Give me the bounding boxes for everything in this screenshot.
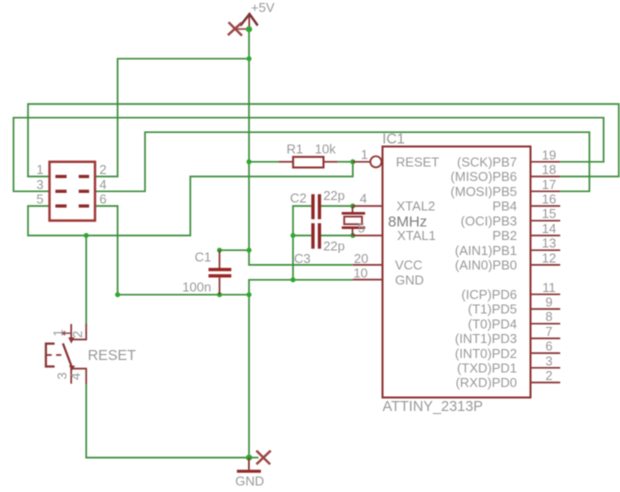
svg-text:GND: GND [395, 272, 424, 287]
node junction C1 top [217, 248, 222, 253]
svg-text:(TXD)PD1: (TXD)PD1 [457, 361, 517, 376]
svg-text:7: 7 [545, 324, 552, 339]
svg-text:6: 6 [545, 339, 552, 354]
svg-text:(MISO)PB6: (MISO)PB6 [451, 169, 517, 184]
pin RESET (1) of IC1 [353, 156, 382, 167]
pin (TXD)PD1 3 of IC1 [531, 367, 561, 369]
svg-text:R1: R1 [287, 141, 304, 156]
pin (T0)PD4 8 of IC1 [531, 323, 561, 325]
svg-text:9: 9 [545, 295, 552, 310]
svg-text:10k: 10k [315, 142, 336, 157]
pin GND (10) of IC1 [353, 279, 383, 281]
svg-text:22p: 22p [323, 239, 345, 254]
wire GND rail to C1 and main vertical [118, 294, 249, 296]
node +5V junction [246, 26, 252, 32]
svg-text:C3: C3 [294, 251, 311, 266]
svg-text:RESET: RESET [396, 155, 439, 170]
svg-text:1: 1 [36, 162, 43, 177]
svg-text:(RXD)PD0: (RXD)PD0 [456, 375, 517, 390]
node junction conn pin6 on GND rail [115, 292, 120, 297]
svg-text:IC1: IC1 [382, 131, 405, 147]
svg-text:(INT1)PD3: (INT1)PD3 [455, 331, 517, 346]
svg-text:2: 2 [545, 368, 552, 383]
svg-text:4: 4 [68, 373, 83, 380]
svg-text:XTAL1: XTAL1 [397, 228, 436, 243]
svg-text:19: 19 [542, 147, 556, 162]
connector JP1 pinhead 2x3 [50, 162, 96, 221]
svg-text:100n: 100n [182, 279, 211, 294]
svg-text:3: 3 [36, 177, 43, 192]
capacitor C2 [311, 194, 321, 219]
pin (OCI)PB3 15 of IC1 [531, 220, 561, 222]
svg-text:C2: C2 [290, 191, 307, 206]
node junction C2C3 on GND wire [291, 277, 296, 282]
wire C1 top to +5V vertical [220, 249, 250, 251]
pin (ICP)PD6 11 of IC1 [531, 293, 561, 295]
pin (RXD)PD0 2 of IC1 [531, 382, 561, 384]
svg-text:(ICP)PD6: (ICP)PD6 [461, 287, 517, 302]
node junction XTAL2 [350, 204, 355, 209]
IC IC1 ATTINY_2313P body [383, 147, 531, 398]
pin PB4 16 of IC1 [531, 205, 561, 207]
ERC cross marker at GND [249, 451, 271, 465]
svg-text:8: 8 [545, 309, 552, 324]
node junction on +5V vertical at C1 row [247, 248, 252, 253]
svg-text:RESET: RESET [88, 348, 136, 364]
svg-text:22p: 22p [323, 188, 345, 203]
wire +5V branch to conn pin2 [95, 59, 249, 177]
svg-text:6: 6 [99, 192, 106, 207]
wire GND conn pin6 drop [95, 206, 118, 295]
svg-text:ATTINY_2313P: ATTINY_2313P [383, 399, 483, 415]
svg-text:16: 16 [542, 192, 556, 207]
svg-text:(OCI)PB3: (OCI)PB3 [461, 213, 517, 228]
svg-text:12: 12 [542, 250, 556, 265]
svg-text:10: 10 [353, 266, 367, 281]
svg-text:(INT0)PD2: (INT0)PD2 [455, 346, 517, 361]
svg-text:4: 4 [360, 191, 367, 206]
node junction RESET at IC pin1 [350, 159, 355, 164]
node junction C2/C3 common [291, 233, 296, 238]
node junction R1 tap [247, 159, 252, 164]
wire RESET net from IC pin1 to conn pin5 [28, 162, 353, 236]
pin (INT1)PD3 7 of IC1 [531, 337, 561, 339]
wire C2C3 common down to GND wire [292, 236, 294, 280]
svg-text:(T0)PD4: (T0)PD4 [468, 316, 517, 331]
svg-text:PB2: PB2 [492, 228, 517, 243]
svg-text:1: 1 [361, 147, 368, 162]
svg-text:1: 1 [51, 329, 66, 336]
svg-text:PB4: PB4 [492, 199, 517, 214]
wire +5V tap to R1 left [249, 161, 279, 163]
wire GND vertical to GND symbol [248, 295, 250, 458]
capacitor C1 [209, 250, 232, 295]
svg-text:5: 5 [358, 221, 365, 236]
wire C2 left to GND corner [293, 206, 311, 236]
svg-text:XTAL2: XTAL2 [397, 199, 436, 214]
node junction at +5V / pin2 branch [247, 56, 252, 61]
wire R1 right to RESET node [338, 161, 353, 163]
svg-text:20: 20 [354, 251, 368, 266]
supply +5V symbol [240, 14, 257, 29]
pin VCC (20) of IC1 [353, 264, 383, 266]
pin (MOSI)PB5 17 of IC1 [531, 190, 561, 192]
pin (AIN0)PB0 12 of IC1 [531, 264, 561, 266]
pin (SCK)PB7 19 of IC1 [531, 161, 561, 163]
svg-text:GND: GND [235, 474, 264, 489]
svg-text:2: 2 [99, 162, 106, 177]
svg-text:4: 4 [99, 177, 106, 192]
svg-text:(MOSI)PB5: (MOSI)PB5 [451, 184, 517, 199]
svg-text:18: 18 [542, 162, 556, 177]
svg-text:(AIN1)PB1: (AIN1)PB1 [455, 243, 517, 258]
node junction C1 bottom [217, 292, 222, 297]
pin PB2 14 of IC1 [531, 235, 561, 237]
node junction at GND symbol [246, 455, 252, 461]
pin XTAL2 (4) of IC1 [353, 205, 383, 207]
ERC cross marker at +5V [228, 22, 248, 36]
pin (INT0)PD2 6 of IC1 [531, 352, 561, 354]
pin (MISO)PB6 18 of IC1 [531, 176, 561, 178]
wire RESET net drop to button S1 [85, 236, 87, 326]
wire +5V main vertical to VCC pin20 [249, 29, 353, 265]
wire C2 right to XTAL2 node [321, 205, 353, 207]
svg-text:3: 3 [545, 353, 552, 368]
node junction RESET/button/conn pin5 [84, 233, 89, 238]
svg-text:17: 17 [542, 177, 556, 192]
resistor R1 [279, 157, 338, 168]
svg-text:+5V: +5V [251, 0, 275, 15]
svg-text:14: 14 [542, 221, 556, 236]
wire MOSI net (conn pin4 to IC pin17) [95, 132, 589, 191]
node junction XTAL1 [350, 233, 355, 238]
wire GND up to IC pin10 [249, 280, 353, 295]
svg-text:(AIN0)PB0: (AIN0)PB0 [455, 258, 517, 273]
wire MISO net (conn pin1 to IC pin18) [28, 104, 619, 177]
svg-text:(T1)PD5: (T1)PD5 [468, 302, 517, 317]
pin XTAL1 (5) of IC1 [353, 235, 383, 237]
pushbutton S1 RESET [46, 324, 87, 384]
wire button S1 bottom to GND rail [86, 384, 249, 458]
pin (AIN1)PB1 13 of IC1 [531, 249, 561, 251]
svg-text:5: 5 [36, 192, 43, 207]
svg-text:(SCK)PB7: (SCK)PB7 [457, 155, 517, 170]
capacitor C3 [311, 223, 321, 249]
ground GND symbol [237, 458, 261, 472]
svg-text:13: 13 [542, 236, 556, 251]
wire C3 right to XTAL1 node [321, 235, 353, 237]
svg-text:VCC: VCC [395, 258, 422, 273]
node junction GND rail corner [247, 292, 252, 297]
svg-text:11: 11 [542, 280, 556, 295]
crystal Q1 8MHz [342, 206, 365, 236]
svg-text:C1: C1 [195, 250, 212, 265]
svg-text:2: 2 [70, 331, 85, 338]
svg-text:15: 15 [542, 206, 556, 221]
wire SCK net (conn pin3 to IC pin19) [14, 118, 604, 192]
pin (T1)PD5 9 of IC1 [531, 308, 561, 310]
